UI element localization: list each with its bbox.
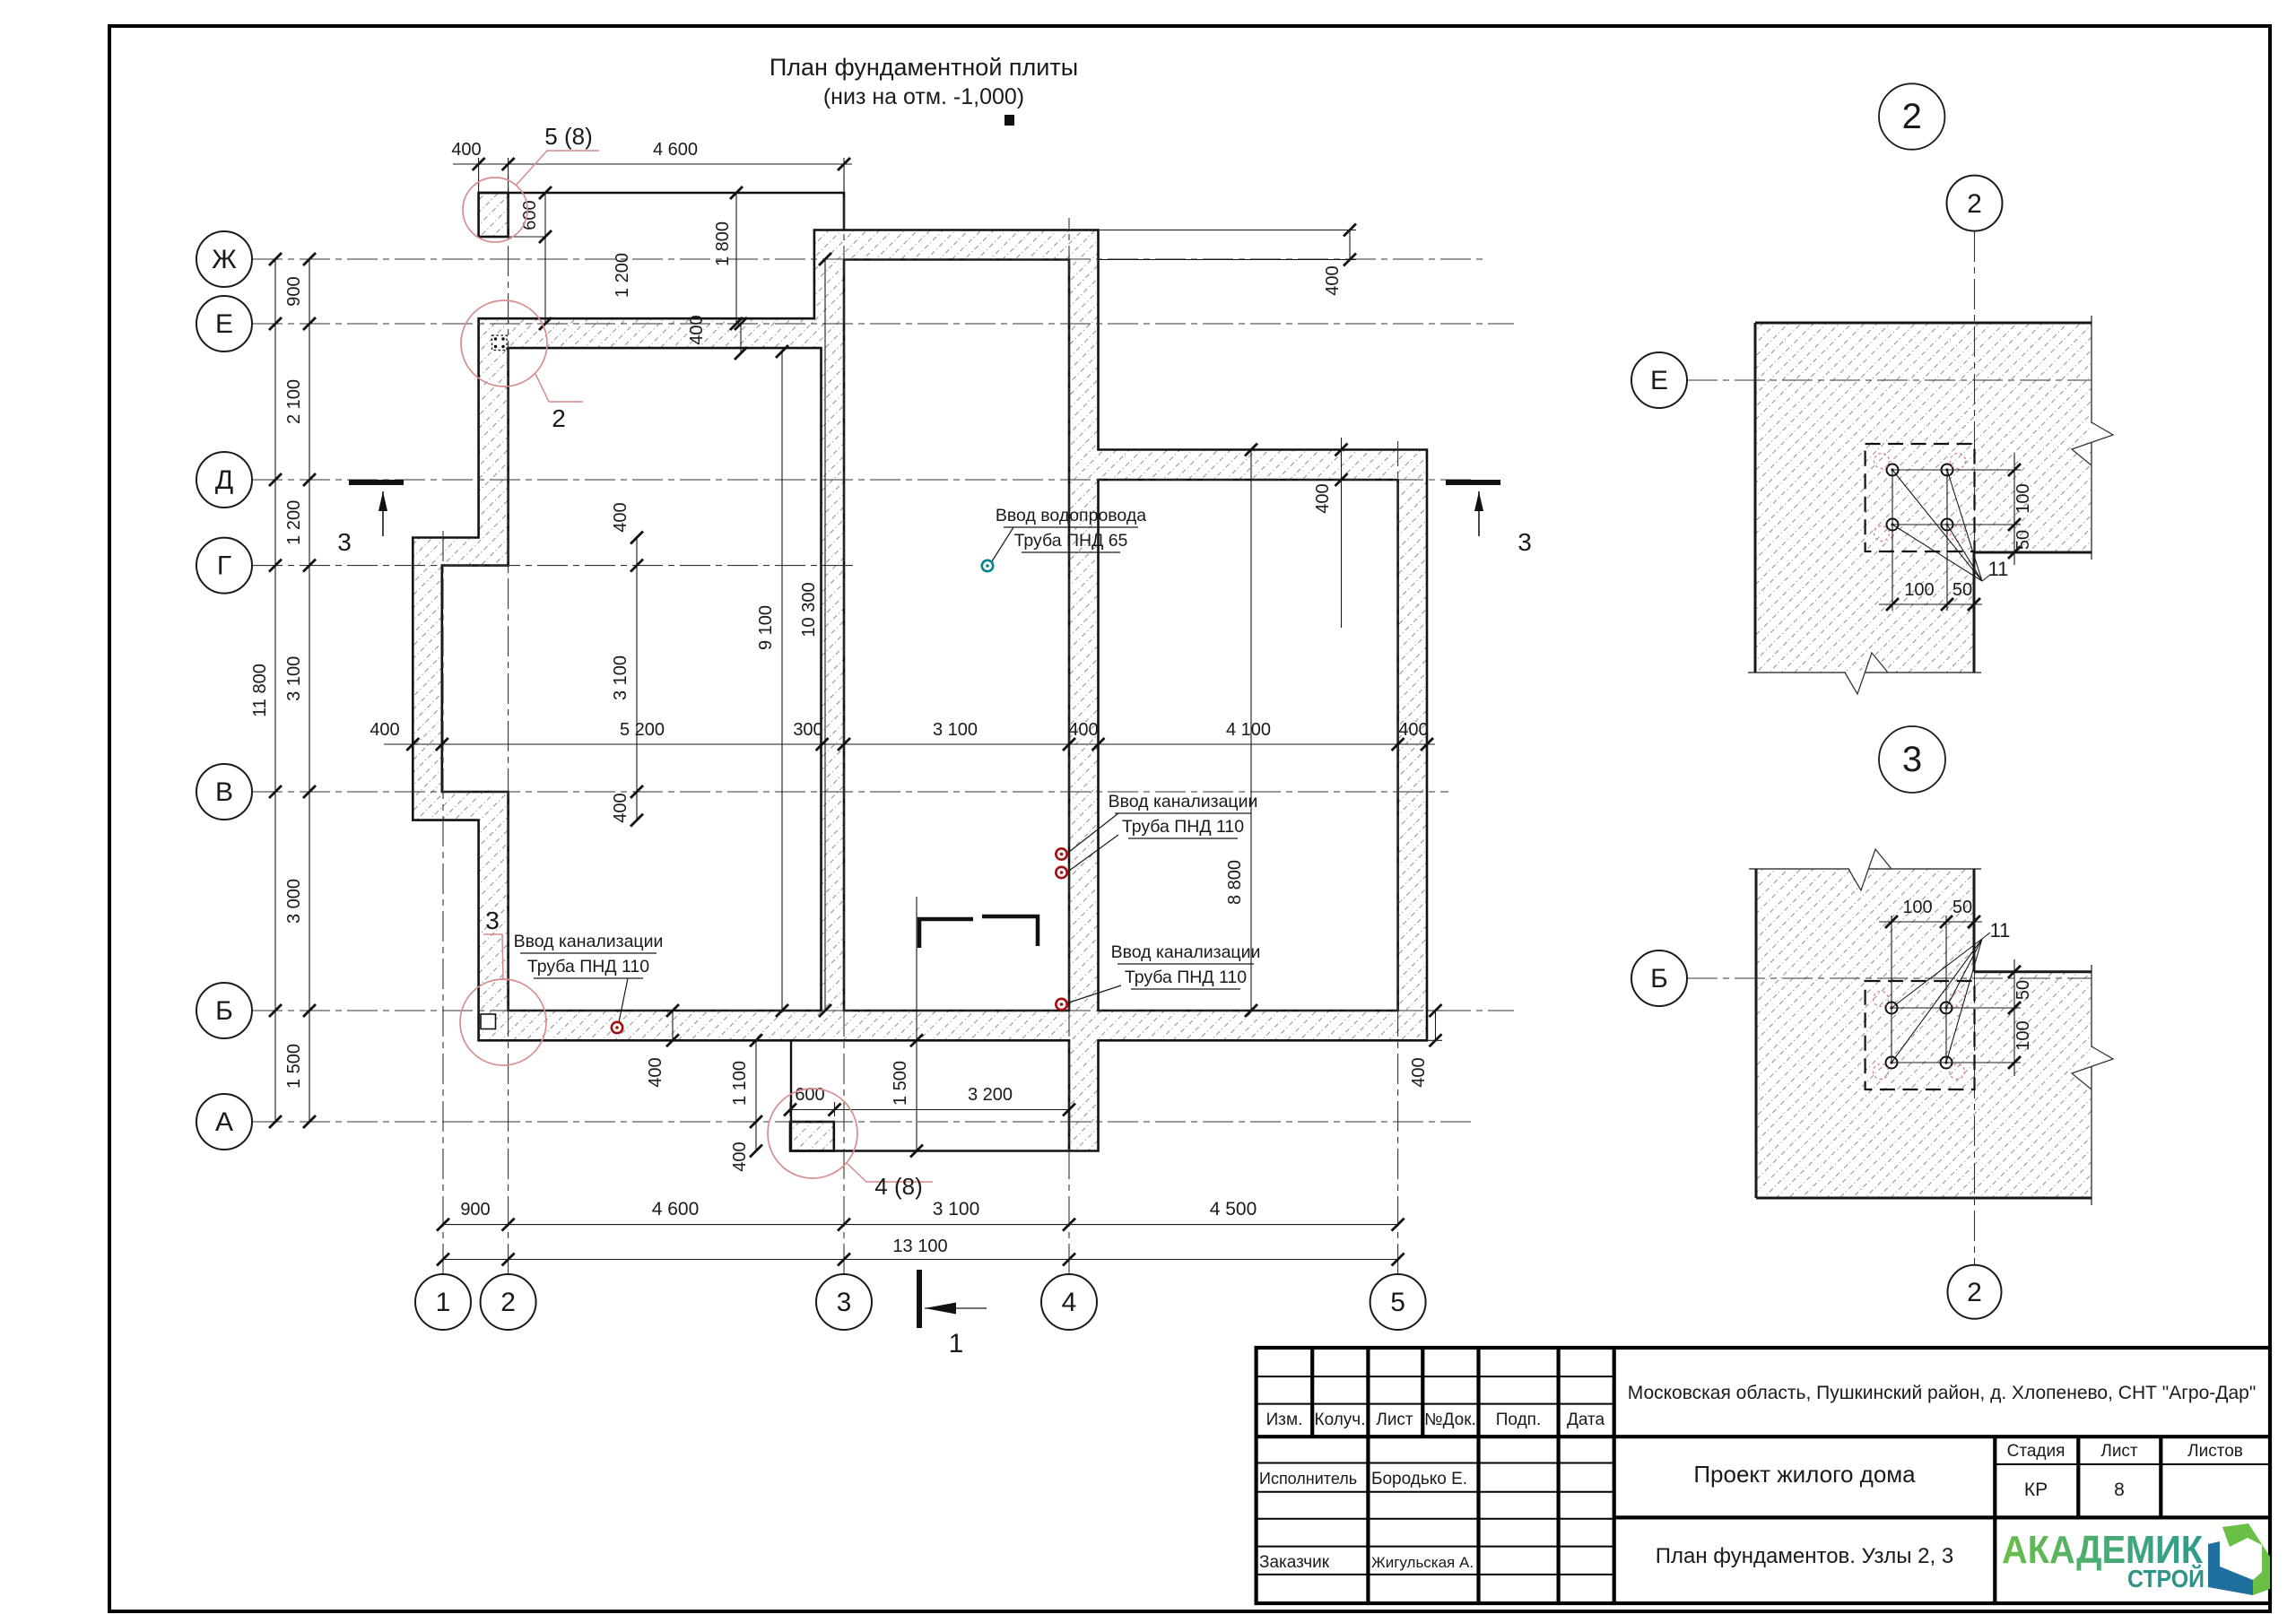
svg-text:Листов: Листов	[2187, 1442, 2243, 1461]
svg-text:Е: Е	[1650, 366, 1668, 395]
svg-text:КР: КР	[2024, 1480, 2048, 1500]
svg-text:1 200: 1 200	[613, 253, 632, 298]
svg-text:50: 50	[2013, 980, 2033, 1000]
svg-text:3: 3	[1902, 740, 1922, 779]
svg-text:Изм.: Изм.	[1266, 1410, 1303, 1429]
svg-text:1 500: 1 500	[284, 1044, 304, 1089]
svg-text:400: 400	[611, 793, 631, 822]
svg-text:1 800: 1 800	[713, 221, 733, 266]
svg-text:1: 1	[436, 1288, 451, 1317]
svg-text:Бородько Е.: Бородько Е.	[1371, 1470, 1467, 1488]
svg-text:400: 400	[370, 720, 399, 740]
svg-text:Московская область, Пушкинский: Московская область, Пушкинский район, д.…	[1628, 1383, 2257, 1403]
svg-text:4 600: 4 600	[653, 140, 698, 160]
svg-text:Заказчик: Заказчик	[1259, 1553, 1330, 1572]
svg-text:400: 400	[1068, 720, 1098, 740]
svg-text:Ввод канализации: Ввод канализации	[1111, 942, 1261, 962]
svg-text:2 100: 2 100	[284, 379, 304, 424]
svg-text:4 (8): 4 (8)	[874, 1173, 922, 1200]
svg-text:2: 2	[552, 404, 566, 432]
svg-text:5: 5	[1390, 1288, 1405, 1317]
svg-text:Ввод водопровода: Ввод водопровода	[996, 506, 1146, 525]
svg-text:План фундаментной плиты: План фундаментной плиты	[770, 54, 1078, 81]
svg-text:400: 400	[451, 140, 481, 160]
svg-text:400: 400	[646, 1057, 665, 1087]
svg-text:100: 100	[2013, 1020, 2033, 1050]
svg-text:400: 400	[730, 1141, 750, 1171]
svg-text:Б: Б	[215, 996, 233, 1026]
svg-text:1 100: 1 100	[730, 1061, 750, 1106]
svg-text:100: 100	[2013, 483, 2033, 513]
svg-text:9 100: 9 100	[756, 605, 776, 650]
svg-text:Лист: Лист	[2100, 1442, 2138, 1461]
svg-text:3 100: 3 100	[611, 655, 631, 700]
svg-text:Дата: Дата	[1567, 1410, 1605, 1429]
svg-text:2: 2	[1967, 189, 1982, 219]
svg-text:Ввод канализации: Ввод канализации	[1109, 792, 1258, 811]
svg-text:Труба ПНД 110: Труба ПНД 110	[1125, 968, 1247, 987]
svg-text:13 100: 13 100	[892, 1237, 947, 1256]
svg-text:2: 2	[500, 1288, 516, 1317]
svg-text:3: 3	[1518, 528, 1532, 556]
svg-text:400: 400	[1409, 1057, 1429, 1087]
svg-text:Труба ПНД 110: Труба ПНД 110	[1122, 817, 1244, 837]
svg-text:900: 900	[460, 1200, 490, 1219]
svg-text:8: 8	[2114, 1480, 2125, 1500]
svg-text:400: 400	[1398, 720, 1428, 740]
svg-text:План фундаментов. Узлы 2, 3: План фундаментов. Узлы 2, 3	[1656, 1544, 1953, 1568]
svg-text:100: 100	[1904, 580, 1934, 600]
svg-text:400: 400	[1313, 483, 1333, 513]
svg-text:100: 100	[1902, 898, 1932, 917]
svg-text:4 500: 4 500	[1210, 1199, 1257, 1219]
svg-text:3 100: 3 100	[933, 720, 978, 740]
svg-text:400: 400	[611, 502, 631, 532]
svg-text:400: 400	[687, 315, 707, 344]
svg-text:2: 2	[1967, 1278, 1982, 1307]
svg-text:Б: Б	[1650, 964, 1668, 994]
svg-text:50: 50	[1952, 580, 1972, 600]
svg-text:1 200: 1 200	[284, 500, 304, 545]
svg-text:900: 900	[284, 276, 304, 306]
svg-text:А: А	[215, 1107, 233, 1137]
svg-text:11: 11	[1988, 558, 2009, 580]
svg-text:Ввод канализации: Ввод канализации	[514, 932, 664, 951]
svg-text:5 200: 5 200	[620, 720, 665, 740]
svg-text:Исполнитель: Исполнитель	[1259, 1470, 1357, 1488]
svg-text:8 800: 8 800	[1225, 860, 1245, 905]
svg-text:3 100: 3 100	[284, 656, 304, 701]
svg-text:1 500: 1 500	[891, 1061, 910, 1106]
svg-text:3 000: 3 000	[284, 879, 304, 924]
svg-text:50: 50	[2013, 530, 2033, 550]
svg-text:1: 1	[949, 1329, 964, 1358]
svg-text:Г: Г	[217, 551, 231, 581]
svg-text:В: В	[215, 777, 233, 807]
svg-text:3: 3	[337, 528, 352, 556]
svg-text:Подп.: Подп.	[1496, 1410, 1541, 1429]
svg-text:10 300: 10 300	[799, 582, 819, 637]
svg-text:11: 11	[1990, 919, 2011, 942]
svg-text:3: 3	[837, 1288, 852, 1317]
svg-text:(низ на отм. -1,000): (низ на отм. -1,000)	[823, 84, 1024, 109]
svg-text:2: 2	[1902, 97, 1922, 136]
svg-text:50: 50	[1952, 898, 1972, 917]
svg-text:3: 3	[485, 907, 500, 934]
svg-text:Труба ПНД 110: Труба ПНД 110	[527, 957, 649, 976]
svg-text:Проект жилого дома: Проект жилого дома	[1693, 1461, 1916, 1488]
svg-text:Стадия: Стадия	[2007, 1442, 2066, 1461]
svg-text:Лист: Лист	[1376, 1410, 1413, 1429]
svg-text:СТРОЙ: СТРОЙ	[2127, 1564, 2205, 1593]
svg-text:Ж: Ж	[212, 245, 237, 274]
svg-text:№Док.: №Док.	[1424, 1410, 1476, 1429]
svg-text:Д: Д	[215, 465, 233, 495]
svg-text:5 (8): 5 (8)	[544, 123, 592, 150]
svg-text:3 200: 3 200	[968, 1085, 1013, 1105]
svg-text:Колуч.: Колуч.	[1315, 1410, 1366, 1429]
svg-text:3 100: 3 100	[933, 1199, 980, 1219]
svg-text:300: 300	[793, 720, 822, 740]
svg-text:4 100: 4 100	[1226, 720, 1271, 740]
svg-text:Труба ПНД 65: Труба ПНД 65	[1014, 531, 1128, 551]
svg-text:11 800: 11 800	[250, 664, 270, 717]
svg-text:Е: Е	[215, 309, 233, 339]
svg-text:Жигульская А.: Жигульская А.	[1371, 1554, 1474, 1571]
svg-text:4: 4	[1062, 1288, 1077, 1317]
svg-text:400: 400	[1323, 265, 1343, 295]
svg-text:4 600: 4 600	[652, 1199, 700, 1219]
